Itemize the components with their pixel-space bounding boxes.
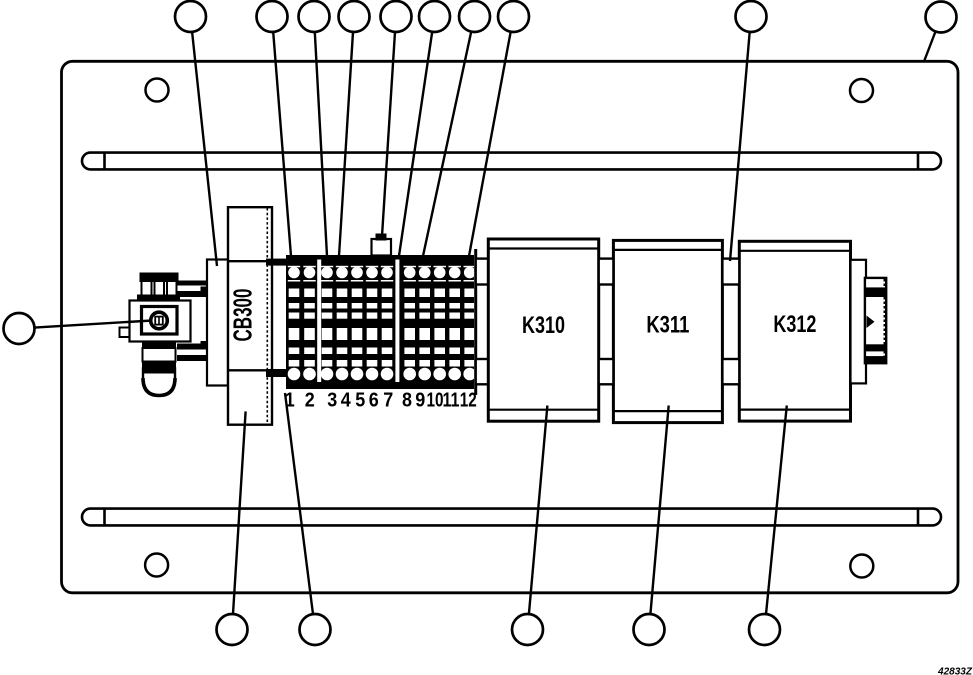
breaker neck bands	[142, 342, 176, 369]
svg-text:42833Z: 42833Z	[937, 667, 973, 675]
leader line T5	[382, 32, 395, 236]
leader line T2	[273, 32, 291, 256]
callout circle B4	[634, 614, 665, 645]
terminal block strip body	[286, 255, 474, 389]
K311 bottom band	[613, 410, 722, 412]
bus stub CB300 to strip top	[266, 259, 287, 266]
callout circle B3	[512, 614, 543, 645]
callout circle T2	[257, 1, 288, 32]
strip end bar	[474, 249, 477, 395]
svg-text:9: 9	[415, 390, 425, 412]
right connector arrow	[867, 316, 875, 329]
leader line B5	[766, 406, 787, 615]
strip top tab cap	[376, 234, 387, 241]
svg-text:10: 10	[427, 390, 444, 412]
svg-text:6: 6	[369, 390, 379, 412]
mounting hole bottom-left	[145, 554, 168, 577]
callout circle T10	[926, 2, 957, 33]
CB300 divider upper	[228, 260, 272, 262]
leader line T3	[315, 32, 327, 256]
svg-text:3: 3	[327, 390, 337, 412]
breaker bottom dome	[143, 369, 175, 396]
terminal strip separator after terminal 7	[395, 260, 399, 383]
mounting panel outline	[62, 61, 959, 593]
leader line T4	[339, 32, 353, 256]
callout circle T6	[419, 1, 450, 32]
callout circle B2	[300, 614, 331, 645]
breaker CB300 body	[228, 207, 272, 425]
breaker to plate upper bus bars	[177, 281, 207, 298]
mounting hole top-right	[850, 79, 873, 102]
stub K311-K312 bottom	[722, 359, 739, 384]
relay K312 body	[739, 241, 850, 421]
CB300 hatched right edge	[266, 208, 268, 424]
K310 top band	[488, 247, 598, 249]
callout circle T8	[498, 1, 529, 32]
relay K311 body	[613, 240, 722, 422]
svg-text:4: 4	[341, 390, 352, 412]
right connector inner box	[865, 278, 886, 363]
svg-text:8: 8	[402, 390, 412, 412]
leader line B2	[285, 393, 313, 614]
relay K310 body	[488, 239, 598, 421]
mounting hole bottom-right	[850, 555, 873, 578]
callout circle left	[4, 313, 35, 344]
strip top tab	[372, 239, 392, 256]
breaker side-view terminal studs	[138, 274, 179, 302]
leader line T1	[192, 32, 217, 266]
terminal strip separator after terminal 2	[317, 260, 321, 383]
K311 top band	[613, 249, 722, 251]
callout circle T1	[175, 1, 206, 32]
DIN rail bottom	[82, 509, 941, 526]
callout circle T3	[299, 1, 330, 32]
DIN rail top	[82, 153, 941, 170]
terminal numbers 1-12	[285, 390, 477, 412]
mounting hole top-left	[146, 79, 169, 102]
right connector outer box	[851, 260, 867, 384]
callout circle T7	[459, 1, 490, 32]
breaker inner frame	[142, 307, 178, 335]
bus stub CB300 to strip bottom	[266, 369, 287, 377]
callout circle T5	[381, 1, 412, 32]
breaker mounting plate	[207, 260, 228, 386]
svg-text:2: 2	[305, 390, 315, 412]
breaker main body box	[130, 301, 191, 342]
callout circle B1	[217, 614, 248, 645]
svg-text:7: 7	[383, 390, 393, 412]
leader line T6	[399, 32, 432, 256]
leader line T8	[469, 32, 511, 256]
K310 bottom band	[488, 409, 598, 411]
svg-text:K310: K310	[522, 312, 565, 339]
right connector hatched edge	[884, 279, 886, 362]
stub K310-K311 bottom	[599, 359, 614, 384]
stub K310-K311 top	[599, 259, 614, 285]
leader line left	[35, 321, 153, 328]
breaker adjustment screw	[151, 312, 168, 329]
svg-text:5: 5	[355, 390, 365, 412]
K312 bottom band	[739, 409, 850, 411]
plate left nubs	[201, 287, 208, 350]
leader line T7	[423, 32, 471, 256]
stub strip-K310 top	[476, 259, 489, 285]
breaker left tab	[120, 328, 130, 338]
leader line T10	[924, 32, 936, 62]
svg-text:K311: K311	[646, 312, 689, 339]
callout circle B5	[749, 614, 780, 645]
svg-text:11: 11	[443, 390, 460, 412]
right connector bands	[866, 287, 885, 363]
callout circle T4	[339, 1, 370, 32]
leader line T9	[730, 32, 750, 261]
callout circle T9	[736, 1, 767, 32]
leader line B1	[233, 411, 246, 614]
breaker to plate lower bus bars	[177, 344, 207, 362]
leader line B3	[529, 406, 548, 615]
terminal strip white slots and screws	[288, 266, 476, 381]
svg-text:K312: K312	[773, 311, 816, 338]
svg-text:CB300: CB300	[228, 289, 258, 342]
stub K311-K312 top	[722, 259, 739, 285]
leader line B4	[650, 406, 668, 615]
CB300 divider lower	[228, 369, 272, 371]
stub strip-K310 bottom	[476, 359, 489, 384]
K312 top band	[739, 250, 850, 252]
